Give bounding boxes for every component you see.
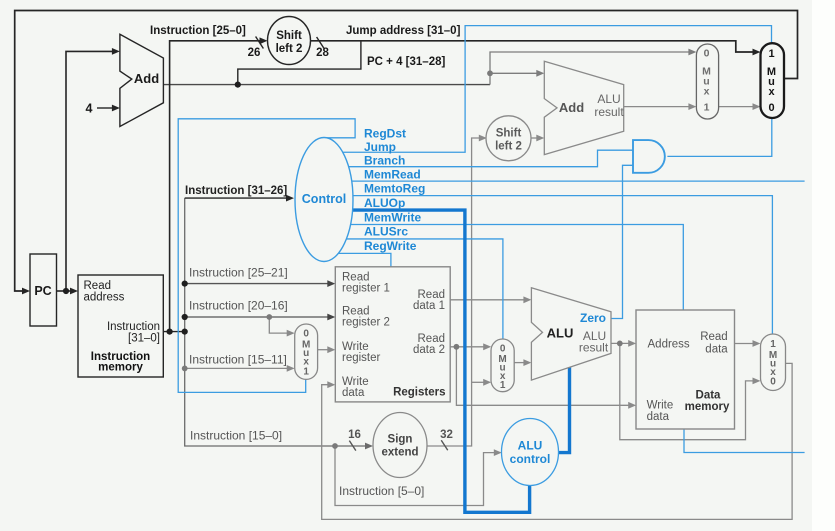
svg-text:16: 16: [348, 429, 361, 441]
svg-text:0: 0: [704, 48, 710, 60]
svg-text:0: 0: [770, 377, 776, 388]
svg-text:Shift: Shift: [276, 30, 302, 42]
svg-text:Control: Control: [302, 192, 346, 206]
svg-text:PC + 4 [31–28]: PC + 4 [31–28]: [367, 56, 445, 68]
svg-text:Zero: Zero: [580, 311, 606, 325]
svg-text:result: result: [579, 341, 609, 355]
svg-text:data: data: [705, 344, 728, 356]
svg-text:[31–0]: [31–0]: [128, 333, 160, 345]
svg-text:1: 1: [704, 102, 710, 114]
svg-text:Sign: Sign: [388, 434, 413, 446]
svg-text:Read: Read: [700, 331, 728, 343]
svg-text:Instruction: Instruction: [107, 321, 160, 333]
svg-text:Instruction [25–0]: Instruction [25–0]: [150, 25, 246, 37]
svg-text:RegDst: RegDst: [364, 127, 406, 141]
svg-text:data: data: [342, 387, 365, 399]
svg-text:1: 1: [768, 48, 774, 60]
svg-text:ALU: ALU: [597, 92, 620, 106]
svg-text:RegWrite: RegWrite: [364, 239, 417, 253]
svg-text:register 1: register 1: [342, 283, 390, 295]
svg-text:Instruction [5–0]: Instruction [5–0]: [339, 484, 424, 498]
svg-text:result: result: [594, 105, 624, 119]
svg-text:Data: Data: [696, 390, 722, 402]
svg-text:Instruction [15–11]: Instruction [15–11]: [189, 353, 287, 367]
svg-text:register 2: register 2: [342, 317, 390, 329]
svg-text:memory: memory: [98, 362, 143, 374]
svg-text:28: 28: [316, 47, 329, 59]
svg-text:1: 1: [770, 339, 776, 350]
svg-text:PC: PC: [34, 284, 51, 298]
svg-text:Instruction [25–21]: Instruction [25–21]: [189, 266, 288, 280]
svg-text:Instruction [20–16]: Instruction [20–16]: [189, 299, 288, 313]
svg-text:Instruction [15–0]: Instruction [15–0]: [190, 429, 282, 443]
svg-text:4: 4: [86, 101, 93, 115]
svg-text:data 2: data 2: [413, 344, 445, 356]
svg-text:1: 1: [500, 380, 506, 391]
svg-text:MemtoReg: MemtoReg: [364, 182, 425, 196]
svg-text:ALU: ALU: [547, 326, 574, 341]
svg-text:control: control: [510, 452, 551, 466]
svg-text:32: 32: [440, 429, 453, 441]
svg-text:x: x: [704, 86, 710, 98]
svg-text:0: 0: [768, 102, 774, 114]
svg-text:Write: Write: [647, 400, 674, 412]
svg-text:0: 0: [303, 329, 309, 340]
svg-text:memory: memory: [685, 401, 730, 413]
svg-text:left 2: left 2: [495, 141, 522, 153]
svg-text:Add: Add: [559, 100, 584, 115]
svg-text:Read: Read: [84, 280, 112, 292]
svg-text:left 2: left 2: [276, 43, 303, 55]
svg-text:address: address: [84, 292, 125, 304]
svg-text:data 1: data 1: [413, 300, 445, 312]
svg-text:Jump: Jump: [364, 140, 396, 154]
svg-text:0: 0: [500, 344, 506, 355]
svg-text:ALUOp: ALUOp: [364, 196, 405, 210]
svg-text:26: 26: [248, 47, 261, 59]
svg-text:MemWrite: MemWrite: [364, 211, 421, 225]
svg-text:x: x: [768, 86, 775, 98]
svg-text:data: data: [647, 411, 670, 423]
svg-text:Shift: Shift: [496, 128, 522, 140]
svg-text:Add: Add: [134, 71, 159, 86]
svg-text:ALU: ALU: [518, 439, 543, 453]
svg-text:Branch: Branch: [364, 154, 405, 168]
svg-text:MemRead: MemRead: [364, 167, 421, 181]
svg-text:Jump address [31–0]: Jump address [31–0]: [346, 25, 461, 37]
svg-text:Address: Address: [648, 339, 690, 351]
svg-text:Instruction [31–26]: Instruction [31–26]: [185, 185, 287, 197]
svg-text:extend: extend: [381, 447, 418, 459]
svg-text:ALUSrc: ALUSrc: [364, 224, 408, 238]
svg-text:register: register: [342, 352, 381, 364]
svg-text:1: 1: [303, 367, 309, 378]
svg-text:Registers: Registers: [393, 387, 445, 399]
